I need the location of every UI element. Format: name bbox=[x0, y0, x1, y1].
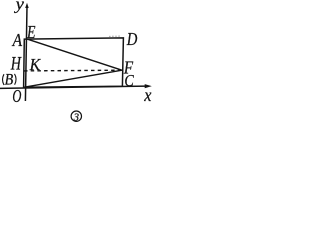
line O(B) to F bbox=[24, 70, 122, 87]
svg-text:C: C bbox=[124, 71, 134, 90]
x-axis bbox=[0, 86, 146, 88]
y-axis arrowhead bbox=[25, 3, 29, 8]
svg-text:K: K bbox=[29, 55, 42, 74]
svg-text:O: O bbox=[12, 86, 21, 106]
svg-text:E: E bbox=[26, 22, 35, 42]
x-axis arrowhead bbox=[145, 84, 152, 88]
rectangle ABCD: A top-left, D top-right, C bottom-right, B bottom-left bbox=[24, 38, 124, 87]
y-axis bbox=[25, 7, 27, 102]
svg-text:D: D bbox=[126, 29, 137, 49]
svg-text:y: y bbox=[13, 0, 24, 13]
label (B) bbox=[3, 71, 17, 88]
faint scan smudge above top side bbox=[109, 35, 120, 37]
svg-text:x: x bbox=[143, 85, 151, 105]
line E to F bbox=[27, 39, 122, 70]
svg-text:3: 3 bbox=[73, 112, 79, 123]
dashed line H-K-F bbox=[24, 69, 122, 72]
svg-text:A: A bbox=[12, 30, 23, 50]
caption circled 3 bbox=[71, 111, 81, 121]
